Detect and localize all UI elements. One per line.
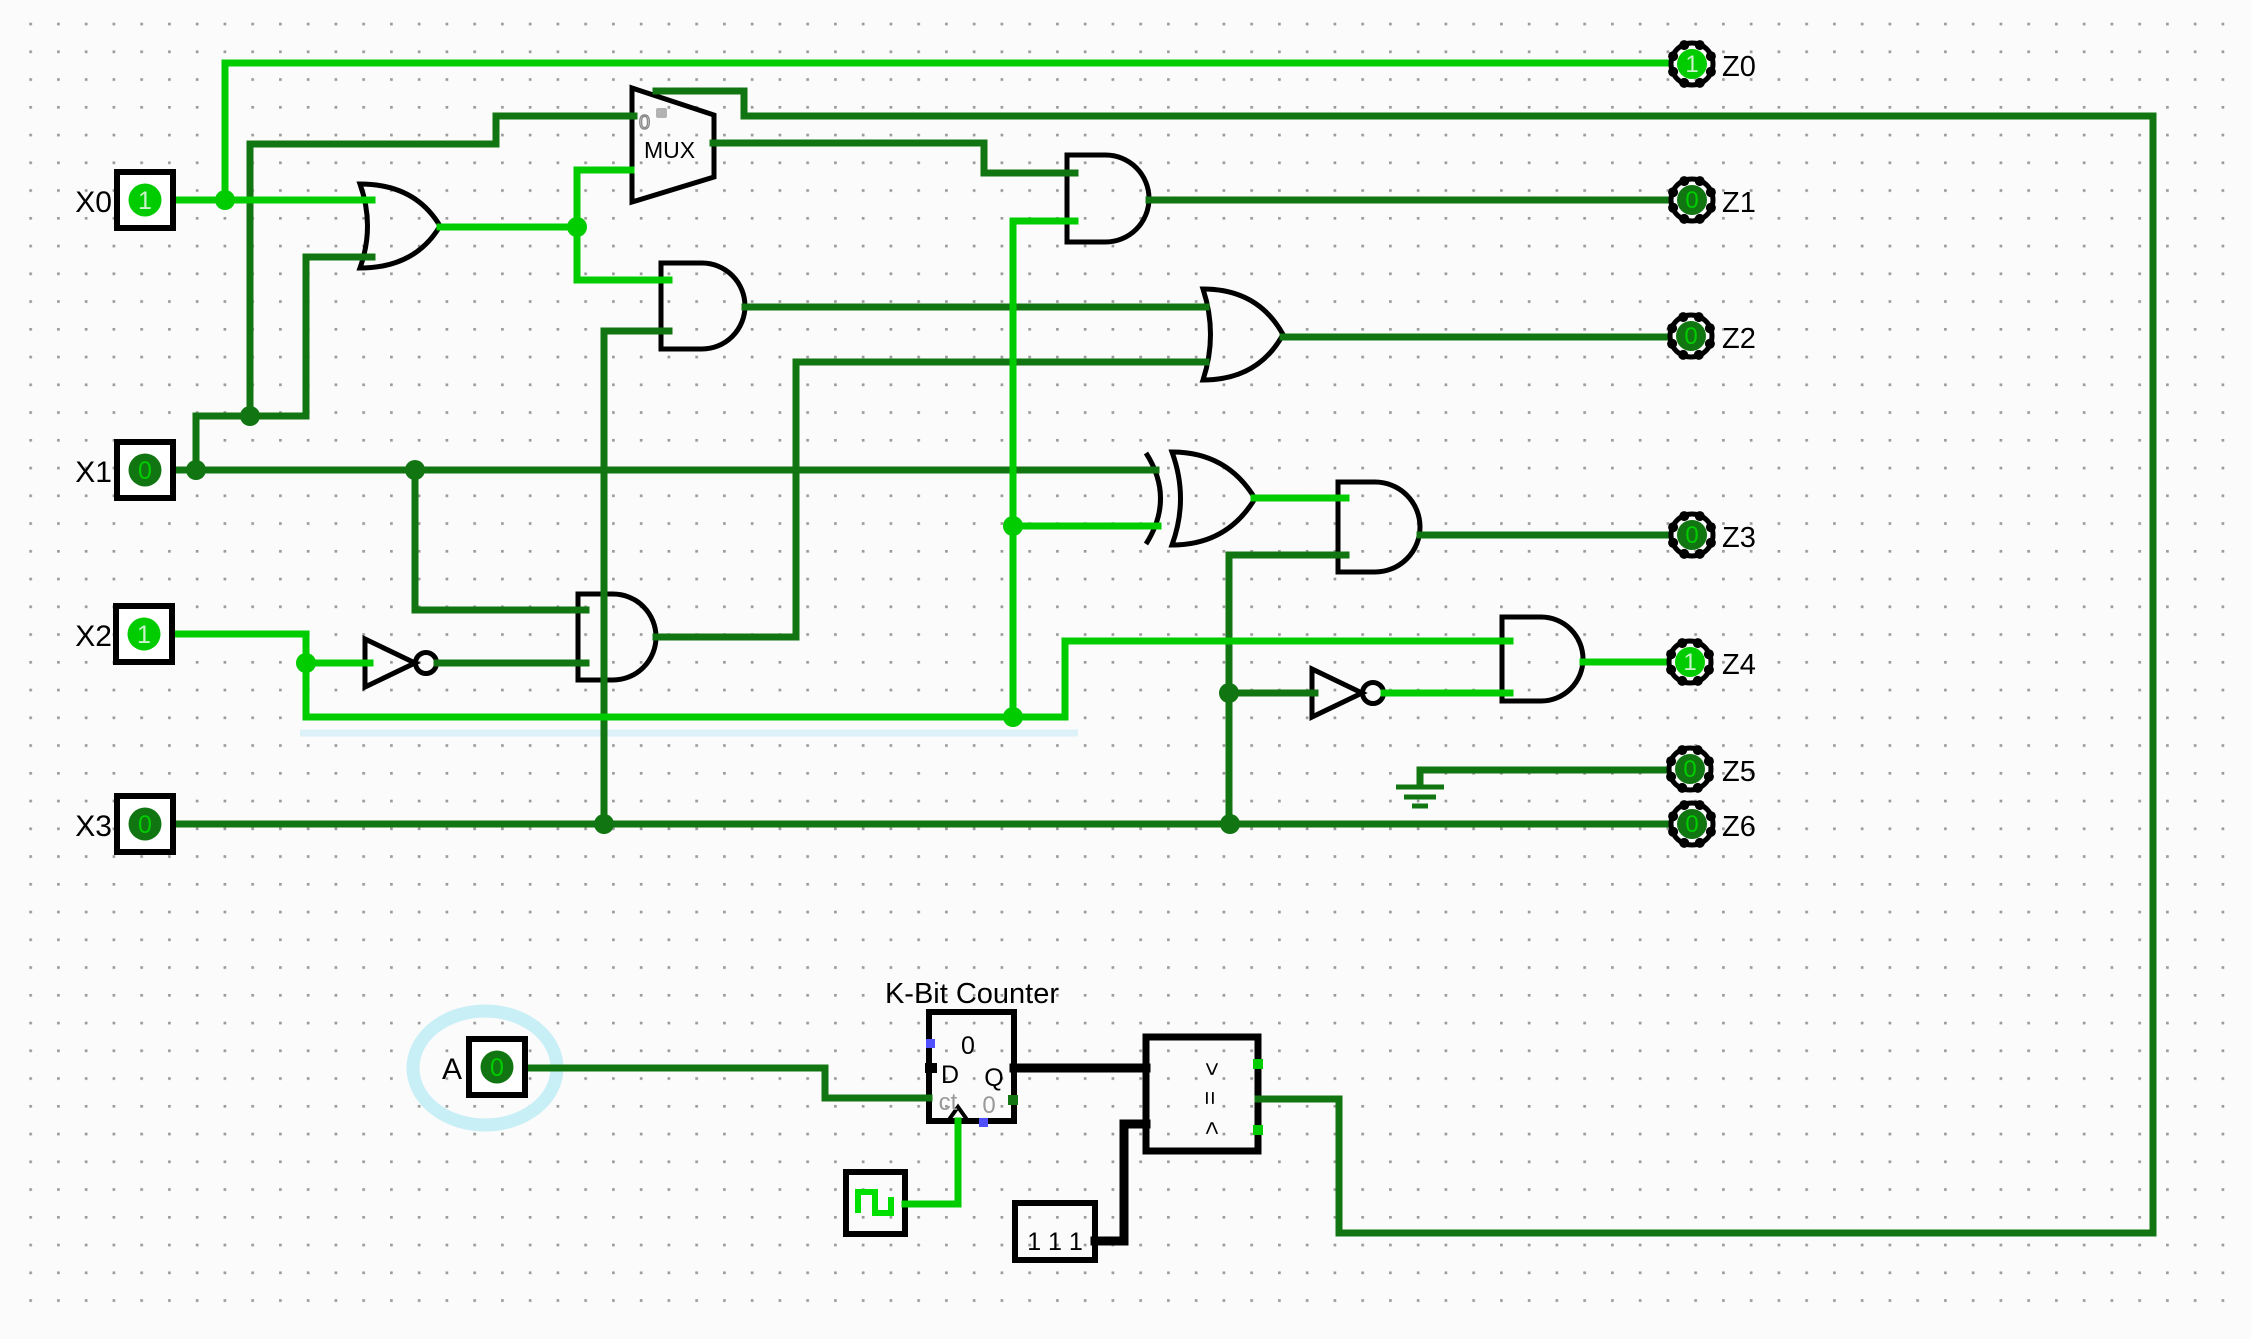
wire NOT2 out to AND Z4 (1384, 690, 1510, 697)
counter clock notch (948, 1107, 968, 1121)
wire OR out branch (574, 170, 581, 280)
wire clock to counter (905, 1121, 958, 1204)
svg-text:0: 0 (961, 1032, 975, 1060)
svg-text:X0: X0 (75, 186, 112, 219)
wire X1 main (171, 467, 1156, 474)
node X3 junction 1 (594, 814, 614, 834)
wire top rail to Z0 (225, 60, 1666, 67)
svg-text:1: 1 (137, 621, 151, 649)
wire AND Z3 lower input (1229, 552, 1346, 559)
AND gate A1 (OR out AND X3) (661, 263, 745, 349)
wire X3 rise to AND A1 (601, 331, 608, 824)
output pin Z1 (1671, 179, 1713, 221)
counter carry nub (1008, 1095, 1018, 1105)
svg-text:0: 0 (1685, 187, 1698, 214)
wire ground to Z5 (1420, 767, 1664, 774)
svg-text:Z6: Z6 (1722, 811, 1756, 843)
input pin X1 (117, 442, 173, 498)
comparator less output nub (1253, 1125, 1263, 1135)
wire NOT1 out to AND A2 (437, 660, 586, 667)
ground symbol (1417, 770, 1424, 786)
input pin X0 (117, 172, 173, 228)
wire constant to comparator (1095, 1124, 1146, 1241)
svg-text:Z0: Z0 (1722, 51, 1756, 83)
wire Z0 riser (222, 63, 229, 200)
wire MUX in1 (577, 167, 631, 174)
output pin Z5 (1669, 748, 1711, 790)
wire AND A1 upper input (577, 277, 669, 284)
AND gate feeding Z1 (1067, 155, 1149, 242)
svg-text:0: 0 (1685, 522, 1698, 549)
wire counter Q to comparator (1014, 1064, 1146, 1073)
svg-text:1: 1 (1685, 51, 1698, 78)
svg-text:0: 0 (1683, 756, 1696, 783)
svg-text:0: 0 (490, 1054, 504, 1082)
wire OR lower input vertical (303, 257, 310, 416)
svg-text:ct: ct (939, 1089, 958, 1116)
svg-text:0: 0 (1685, 811, 1698, 838)
wire X1 to AND A2 (415, 470, 586, 610)
wire AND Z4 upper input (1065, 638, 1510, 645)
node X3 junction 2 (1220, 814, 1240, 834)
comparator equal (1196, 1091, 1223, 1105)
OR gate feeding Z2 (1203, 289, 1283, 380)
wire AND Z1 lower input (1013, 218, 1075, 225)
wire MUX in0 b (496, 116, 634, 144)
svg-text:K-Bit Counter: K-Bit Counter (885, 978, 1059, 1010)
inverter NOT2 (X3) (1312, 669, 1362, 717)
output pin Z2 (1670, 315, 1712, 357)
wire OR output (440, 224, 577, 231)
selection halo along X2 wire (300, 730, 1078, 737)
svg-text:A: A (442, 1053, 462, 1086)
svg-text:>: > (1198, 1062, 1225, 1076)
input pin X2 (116, 606, 172, 662)
node OR out junction (567, 217, 587, 237)
wire X1 upper run (196, 413, 306, 420)
svg-text:X3: X3 (75, 810, 112, 843)
node X0 junction (215, 190, 235, 210)
svg-text:1 1 1: 1 1 1 (1027, 1228, 1083, 1256)
wire NOT1 input (306, 660, 370, 667)
svg-text:Z5: Z5 (1722, 756, 1756, 788)
wire feedback right vertical (2150, 116, 2157, 1233)
svg-text:Q: Q (984, 1064, 1003, 1092)
wire MUX select (656, 91, 744, 116)
wire X3 rise to Z3 AND (1226, 555, 1233, 824)
input pin A (469, 1039, 525, 1095)
wire comparator out vertical (1336, 1099, 1343, 1233)
output pin Z4 (1669, 641, 1711, 683)
counter blue pin bottom (979, 1118, 988, 1127)
wire AND A1 out to OR (745, 304, 1206, 311)
svg-text:Z2: Z2 (1722, 323, 1756, 355)
node X2 junction (296, 653, 316, 673)
svg-text:X2: X2 (75, 620, 112, 653)
wire X1 branch vertical (247, 144, 254, 416)
clock generator (846, 1172, 905, 1234)
node NOT2 junction (1219, 683, 1239, 703)
wire AND A2 out a (656, 634, 796, 641)
node X1-A2 junction (405, 460, 425, 480)
svg-text:0: 0 (138, 811, 152, 839)
svg-text:0: 0 (639, 112, 650, 134)
wire riser to AND Z4 (1062, 641, 1069, 717)
node X1 upper junction (240, 406, 260, 426)
K-Bit Counter box (929, 1012, 1014, 1121)
inverter NOT1 (X2) (365, 639, 415, 687)
output pin Z3 (1671, 514, 1713, 556)
AND gate feeding Z3 (1338, 482, 1420, 572)
multiplexer MUX (632, 88, 714, 202)
wire MUX out to AND (713, 143, 1075, 173)
svg-text:Z1: Z1 (1722, 187, 1756, 219)
wire X0 to OR (172, 197, 372, 204)
svg-text:0: 0 (138, 457, 152, 485)
node XOR input junction (1003, 516, 1023, 536)
wire XOR out to AND Z3 (1254, 495, 1346, 502)
wire AND out to Z1 (1149, 197, 1666, 204)
input pin X3 (117, 796, 173, 852)
wire XOR lower input (1013, 523, 1158, 530)
XOR gate (1172, 452, 1255, 545)
node X1 junction (186, 460, 206, 480)
svg-text:Z4: Z4 (1722, 649, 1756, 681)
svg-text:0: 0 (1684, 323, 1697, 350)
wire AND out to Z4 (1583, 659, 1664, 666)
wire feedback top rail (744, 113, 2153, 120)
wire OR lower input stub (306, 254, 372, 261)
wire AND A2 out vertical (793, 362, 800, 637)
wire X3 to Z6 (172, 821, 1666, 828)
svg-text:1: 1 (138, 187, 152, 215)
svg-text:1: 1 (1683, 649, 1696, 676)
counter blue pin top (926, 1039, 935, 1048)
OR gate (X0, X1) (360, 184, 440, 268)
MUX select gray box (656, 108, 667, 118)
comparator greater output nub (1253, 1059, 1263, 1069)
constant 1 1 1 (1015, 1203, 1095, 1260)
wire comparator = output (1258, 1096, 1339, 1103)
selection halo around pin A (413, 1011, 557, 1125)
AND gate feeding Z4 (1502, 617, 1583, 701)
wire AND A1 lower input (604, 328, 669, 335)
output pin Z6 (1671, 803, 1713, 845)
comparator less (1198, 1121, 1225, 1135)
svg-text:=: = (1196, 1091, 1223, 1105)
wire A to counter (524, 1068, 929, 1098)
wire X2 vertical branch (1010, 221, 1017, 717)
wire AND A2 out to OR (796, 359, 1206, 366)
wire NOT2 input (1229, 690, 1315, 697)
svg-text:MUX: MUX (644, 137, 695, 163)
comparator (1146, 1037, 1258, 1151)
counter D input nub (925, 1063, 937, 1073)
wire AND out to Z3 (1420, 532, 1666, 539)
wire feedback bottom horizontal (1339, 1230, 2153, 1237)
svg-text:Z3: Z3 (1722, 522, 1756, 554)
svg-text:0: 0 (982, 1092, 995, 1119)
comparator greater (1198, 1062, 1225, 1076)
wire X2 out (172, 634, 306, 717)
output pin Z0 (1671, 43, 1713, 85)
svg-text:D: D (941, 1061, 959, 1089)
wire X2 long run (306, 714, 1065, 721)
wire OR out to Z2 (1283, 334, 1666, 341)
svg-text:<: < (1198, 1121, 1225, 1135)
wire MUX in0 a (250, 141, 496, 148)
svg-text:X1: X1 (75, 456, 112, 489)
wire X1 riser (193, 416, 200, 470)
node X2 run junction (1003, 707, 1023, 727)
AND gate A2 (X1 AND NOT X2) (578, 594, 656, 680)
